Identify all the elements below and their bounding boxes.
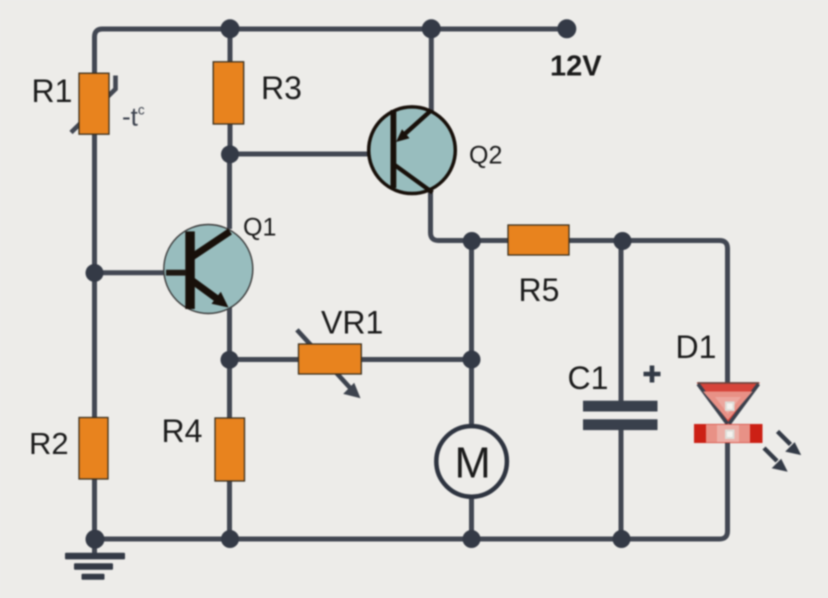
svg-text:Q2: Q2 — [469, 142, 502, 170]
svg-text:12V: 12V — [550, 51, 602, 83]
svg-text:Q1: Q1 — [243, 214, 276, 242]
svg-text:R3: R3 — [261, 70, 302, 106]
svg-text:R2: R2 — [29, 426, 69, 461]
svg-text:R5: R5 — [519, 272, 560, 308]
svg-text:VR1: VR1 — [321, 305, 383, 341]
svg-text:M: M — [455, 440, 491, 488]
svg-text:C1: C1 — [568, 360, 609, 396]
svg-text:D1: D1 — [676, 329, 717, 365]
svg-text:R1: R1 — [32, 73, 73, 109]
svg-text:R4: R4 — [162, 413, 203, 449]
